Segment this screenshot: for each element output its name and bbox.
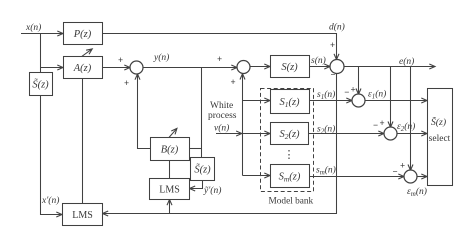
svg-text:process: process — [208, 111, 237, 121]
svg-text:A(z): A(z) — [73, 63, 92, 74]
svg-text:ε2(n): ε2(n) — [397, 121, 415, 133]
svg-text:Model bank: Model bank — [269, 197, 314, 207]
svg-text:s(n): s(n) — [311, 55, 326, 66]
svg-text:v(n): v(n) — [214, 123, 229, 134]
svg-text:+: + — [330, 40, 335, 50]
svg-text:ε1(n): ε1(n) — [368, 89, 386, 101]
svg-text:+: + — [118, 55, 123, 65]
svg-text:s1(n): s1(n) — [317, 89, 335, 101]
svg-text:+: + — [231, 77, 236, 87]
svg-text:+: + — [380, 118, 385, 128]
svg-text:−: − — [331, 70, 336, 80]
svg-text:d(n): d(n) — [329, 22, 345, 33]
svg-text:+: + — [217, 54, 222, 64]
svg-text:sm(n): sm(n) — [316, 165, 336, 177]
svg-text:S̃(z): S̃(z) — [431, 115, 446, 128]
svg-text:x(n): x(n) — [25, 22, 41, 33]
svg-text:select: select — [429, 134, 451, 144]
svg-text:White: White — [210, 101, 233, 111]
svg-text:S2(z): S2(z) — [279, 129, 300, 141]
svg-text:+: + — [124, 78, 129, 88]
svg-text:LMS: LMS — [72, 210, 93, 221]
svg-text:Sm(z): Sm(z) — [279, 172, 301, 184]
svg-text:S̃(z): S̃(z) — [194, 163, 211, 176]
svg-text:−: − — [373, 120, 378, 130]
svg-text:⋮: ⋮ — [284, 149, 295, 161]
svg-text:P(z): P(z) — [73, 29, 92, 40]
svg-text:s2(n): s2(n) — [317, 124, 335, 136]
svg-text:y(n): y(n) — [153, 52, 169, 63]
svg-text:εm(n): εm(n) — [407, 186, 427, 198]
svg-text:ỹ′(n): ỹ′(n) — [203, 185, 221, 196]
svg-text:+: + — [351, 85, 356, 95]
svg-text:S̃(z): S̃(z) — [32, 78, 49, 91]
svg-text:e(n): e(n) — [399, 56, 414, 67]
svg-text:−: − — [393, 167, 398, 177]
svg-text:S1(z): S1(z) — [279, 97, 300, 109]
svg-text:+: + — [400, 161, 405, 171]
svg-text:B(z): B(z) — [161, 145, 179, 156]
svg-text:−: − — [344, 87, 349, 97]
svg-text:S(z): S(z) — [281, 62, 298, 73]
svg-text:LMS: LMS — [159, 184, 180, 195]
svg-text:x′(n): x′(n) — [41, 195, 59, 206]
